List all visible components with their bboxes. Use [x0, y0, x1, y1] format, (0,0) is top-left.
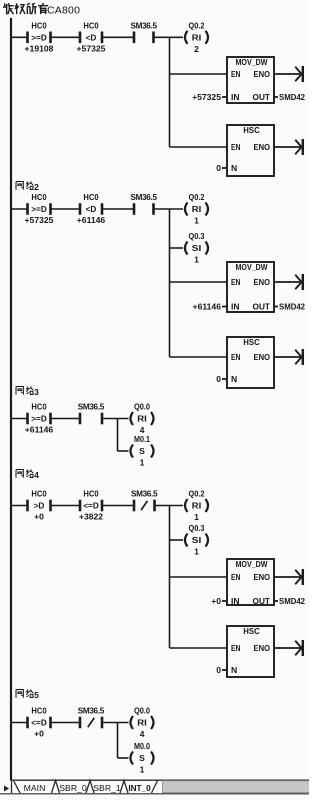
svg-text:>=D: >=D: [31, 205, 47, 214]
svg-text:+3822: +3822: [79, 512, 103, 522]
svg-text:HC0: HC0: [31, 20, 46, 30]
svg-text:+57325: +57325: [192, 92, 221, 102]
tab separator: [120, 781, 128, 794]
box HSC (N 0): [216, 125, 274, 176]
svg-text:+57325: +57325: [25, 215, 54, 225]
svg-text:MOV_DW: MOV_DW: [236, 57, 269, 67]
svg-text:+19108: +19108: [25, 44, 54, 54]
svg-text:RI: RI: [192, 204, 202, 214]
branch wire down: [169, 506, 171, 649]
contact SM36.5: [131, 193, 158, 215]
svg-text:EN: EN: [231, 69, 241, 79]
svg-text:+0: +0: [211, 596, 221, 606]
wire to SI coil: [170, 539, 184, 541]
svg-text:IN: IN: [231, 596, 240, 606]
contact SM36.5 NC: [131, 490, 158, 512]
svg-text:IN: IN: [231, 92, 240, 102]
svg-text:2: 2: [194, 44, 199, 54]
svg-text:N: N: [231, 374, 237, 384]
svg-text:HC0: HC0: [31, 706, 46, 716]
svg-text:MOV_DW: MOV_DW: [236, 559, 269, 569]
svg-text:Q0.3: Q0.3: [189, 523, 205, 533]
branch wire down: [117, 419, 119, 452]
coil Q0.2 (RI) 1: [185, 192, 208, 225]
svg-text:SM36.5: SM36.5: [131, 21, 158, 30]
svg-text:RI: RI: [192, 501, 202, 511]
editor bottom border: [11, 779, 309, 781]
svg-text:1: 1: [140, 458, 145, 468]
network 2 label: [16, 182, 39, 193]
svg-text:S: S: [139, 446, 145, 456]
branch wire down: [169, 37, 171, 147]
wire: [102, 36, 134, 38]
left power rail: [10, 18, 12, 781]
svg-text:EN: EN: [231, 142, 241, 152]
contact HC0 <D +57325: [77, 20, 106, 53]
svg-text:M0.0: M0.0: [134, 741, 150, 751]
svg-text:SM36.5: SM36.5: [78, 707, 105, 716]
horizontal scrollbar: [163, 781, 310, 793]
svg-text:HSC: HSC: [243, 626, 260, 636]
svg-text:SMD42: SMD42: [279, 302, 305, 312]
contact HC0 <=D +0: [28, 706, 51, 739]
svg-text:3: 3: [34, 387, 39, 397]
contact SM36.5: [78, 403, 105, 425]
network 1 wire: rail to contact 1: [11, 36, 28, 38]
ENO continuation arrow: [274, 640, 303, 656]
svg-text:HC0: HC0: [83, 20, 98, 30]
svg-text:EN: EN: [231, 643, 241, 653]
svg-text:S: S: [139, 753, 145, 763]
svg-text:IN: IN: [231, 302, 240, 312]
wire: [51, 505, 81, 507]
wire to coil: [102, 418, 129, 420]
svg-text:RI: RI: [192, 33, 202, 43]
svg-text:HC0: HC0: [83, 192, 98, 202]
svg-text:<D: <D: [86, 33, 97, 42]
svg-text:HC0: HC0: [31, 402, 46, 412]
svg-text:N: N: [231, 665, 237, 675]
svg-text:>D: >D: [34, 502, 45, 511]
coil Q0.2 (RI) 2: [185, 21, 208, 54]
ENO continuation arrow: [274, 66, 303, 82]
tab divider: [11, 781, 13, 794]
svg-text:Q0.0: Q0.0: [134, 402, 150, 412]
box MOV_DW (IN +0, OUT SMD42): [211, 559, 305, 606]
ENO continuation arrow: [274, 139, 303, 155]
svg-text:<=D: <=D: [31, 719, 47, 728]
svg-text:Q0.0: Q0.0: [134, 706, 150, 716]
box MOV_DW (IN +57325, OUT SMD42): [192, 57, 305, 103]
svg-text:SM36.5: SM36.5: [78, 403, 105, 412]
coil Q0.2 (RI) 1: [185, 489, 208, 522]
tab separator: [86, 781, 94, 794]
wire: [51, 418, 81, 420]
svg-text:1: 1: [194, 512, 199, 522]
svg-text:1: 1: [194, 255, 199, 265]
svg-text:+0: +0: [34, 729, 44, 739]
svg-text:>=D: >=D: [31, 33, 47, 42]
svg-text:INT_0: INT_0: [128, 784, 151, 793]
svg-text:+61146: +61146: [193, 302, 222, 312]
svg-text:CA800: CA800: [47, 5, 80, 17]
wire to S coil: [118, 450, 129, 452]
svg-text:1: 1: [194, 547, 199, 557]
wire to S coil: [118, 757, 129, 759]
svg-text:Q0.2: Q0.2: [189, 192, 205, 202]
svg-text:OUT: OUT: [253, 596, 271, 606]
contact HC0 >=D +61146: [25, 402, 54, 435]
wire: [11, 722, 28, 724]
svg-text:ENO: ENO: [254, 277, 271, 287]
svg-text:+61146: +61146: [25, 425, 54, 435]
wire to coil: [102, 722, 129, 724]
contact HC0 <D +61146: [77, 192, 106, 225]
svg-text:ENO: ENO: [254, 69, 271, 79]
ENO continuation arrow: [274, 349, 303, 365]
svg-text:1: 1: [194, 216, 199, 226]
svg-text:RI: RI: [137, 718, 147, 728]
svg-text:5: 5: [34, 690, 39, 700]
svg-text:ENO: ENO: [254, 643, 271, 653]
svg-text:SBR_0: SBR_0: [59, 783, 87, 793]
contact HC0 >D +0: [28, 489, 51, 522]
tab end slant: [152, 781, 158, 794]
svg-text:4: 4: [140, 729, 145, 739]
svg-text:ENO: ENO: [254, 142, 271, 152]
contact SM36.5 NC: [78, 707, 105, 729]
box HSC (N 0): [216, 337, 274, 388]
svg-text:1: 1: [140, 765, 145, 775]
svg-text:Q0.3: Q0.3: [189, 231, 205, 241]
svg-text:SM36.5: SM36.5: [131, 490, 158, 499]
svg-text:HC0: HC0: [83, 489, 98, 499]
svg-text:+61146: +61146: [77, 215, 106, 225]
svg-text:MAIN: MAIN: [24, 783, 46, 793]
network 4 label: [16, 470, 39, 481]
box HSC (N 0): [216, 626, 274, 677]
wire: [11, 208, 28, 210]
svg-text:ENO: ENO: [254, 572, 271, 582]
svg-text:<=D: <=D: [83, 502, 99, 511]
coil Q0.0 (RI) 4: [131, 706, 154, 739]
watermark text 版权所有CA800: [3, 3, 80, 16]
svg-text:ENO: ENO: [254, 352, 271, 362]
svg-text:HSC: HSC: [243, 125, 260, 135]
svg-text:SMD42: SMD42: [279, 92, 305, 102]
svg-text:>=D: >=D: [31, 415, 47, 424]
branch wire down: [117, 723, 119, 759]
wire: [51, 722, 81, 724]
network 5 label: [16, 690, 39, 701]
coil M0.0 (S) 1: [131, 741, 154, 774]
svg-text:OUT: OUT: [253, 302, 271, 312]
wire: [51, 36, 81, 38]
wire to MOV_DW EN: [170, 73, 228, 75]
svg-text:2: 2: [34, 182, 39, 192]
svg-text:SI: SI: [192, 535, 202, 545]
svg-text:RI: RI: [137, 414, 147, 424]
svg-text:EN: EN: [231, 277, 241, 287]
svg-text:SBR_1: SBR_1: [93, 783, 121, 793]
svg-text:HC0: HC0: [31, 489, 46, 499]
wire to MOV_DW EN: [170, 281, 228, 283]
contact HC0 <=D +3822: [79, 489, 103, 522]
box MOV_DW (IN +61146, OUT SMD42): [193, 262, 306, 312]
svg-text:+0: +0: [34, 512, 44, 522]
svg-text:0: 0: [216, 665, 221, 675]
wire to coil: [154, 36, 184, 38]
svg-text:+57325: +57325: [77, 44, 106, 54]
svg-text:4: 4: [34, 470, 39, 480]
contact HC0 >=D +57325: [25, 192, 54, 225]
svg-text:N: N: [231, 163, 237, 173]
coil Q0.0 (RI) 4: [131, 402, 154, 435]
ENO continuation arrow: [274, 274, 303, 290]
network 3 label: [16, 387, 39, 398]
ENO continuation arrow: [274, 569, 303, 585]
svg-text:0: 0: [216, 163, 221, 173]
wire: [102, 505, 134, 507]
tab scroll arrow: [4, 786, 9, 792]
wire to HSC EN: [170, 647, 228, 649]
wire to MOV_DW EN: [170, 576, 228, 578]
wire: [51, 208, 81, 210]
svg-text:0: 0: [216, 374, 221, 384]
tab MAIN: [14, 781, 46, 794]
svg-text:OUT: OUT: [253, 92, 271, 102]
wire to coil: [155, 505, 184, 507]
svg-text:MOV_DW: MOV_DW: [236, 262, 269, 272]
wire to SI coil: [170, 247, 184, 249]
svg-text:SM36.5: SM36.5: [131, 193, 158, 202]
svg-text:HSC: HSC: [243, 337, 260, 347]
svg-text:Q0.2: Q0.2: [189, 489, 205, 499]
tab bar bottom line: [0, 793, 309, 795]
wire: [11, 505, 28, 507]
wire: [11, 418, 28, 420]
svg-text:Q0.2: Q0.2: [189, 21, 205, 31]
coil M0.1 (S) 1: [131, 434, 154, 467]
wire to HSC EN: [170, 356, 228, 358]
branch wire down: [169, 209, 171, 357]
tab separator: [52, 781, 60, 794]
contact SM36.5: [131, 21, 158, 43]
coil Q0.3 (SI) 1: [185, 523, 208, 556]
svg-text:EN: EN: [231, 352, 241, 362]
svg-text:HC0: HC0: [31, 192, 46, 202]
svg-text:M0.1: M0.1: [134, 434, 150, 444]
svg-text:SI: SI: [192, 243, 202, 253]
svg-text:SMD42: SMD42: [279, 596, 305, 606]
contact HC0 >=D +19108: [25, 20, 54, 53]
wire to coil: [154, 208, 184, 210]
wire: [102, 208, 134, 210]
coil Q0.3 (SI) 1: [185, 231, 208, 264]
svg-text:<D: <D: [86, 205, 97, 214]
wire to HSC EN: [170, 146, 228, 148]
svg-text:EN: EN: [231, 572, 241, 582]
